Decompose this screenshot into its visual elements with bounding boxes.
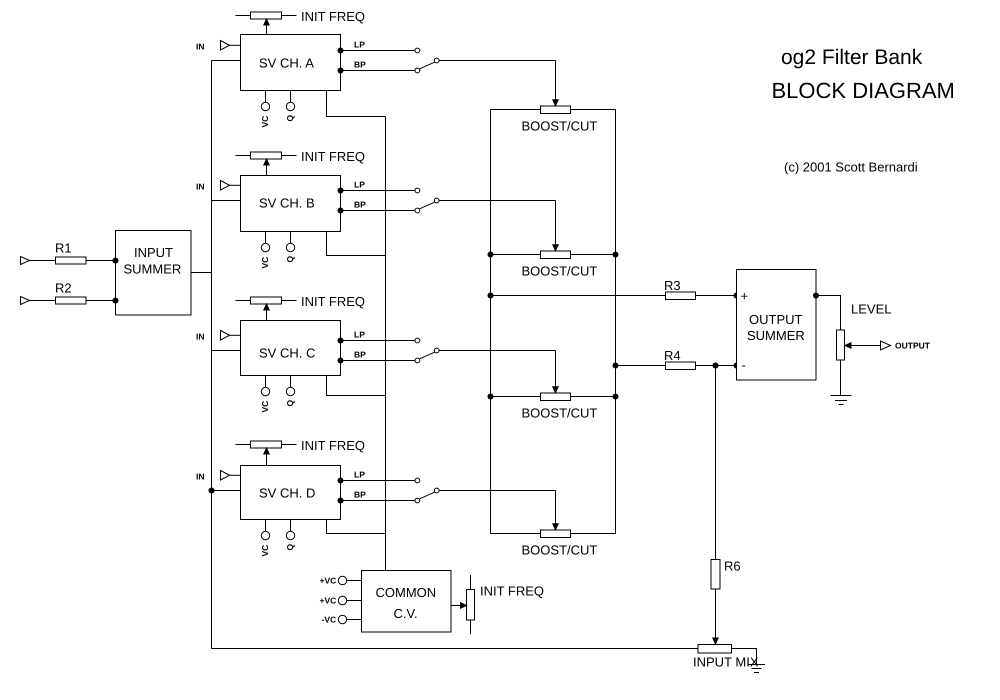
- svg-text:BP: BP: [354, 200, 366, 210]
- label - input: [742, 358, 746, 373]
- open terminal BP (channel D): [415, 498, 420, 503]
- svg-text:Q: Q: [285, 115, 295, 122]
- label VC (channel D): [260, 545, 270, 557]
- wire SV CH. C bottom to common CV bus: [327, 375, 386, 396]
- label LP (channel A): [354, 40, 365, 50]
- input buffer triangle (channel D): [221, 471, 241, 481]
- node BP pin (channel A): [338, 68, 344, 74]
- open terminal LP (channel C): [415, 338, 420, 343]
- node bus at channel D: [209, 488, 215, 494]
- label R3: [664, 278, 681, 293]
- open terminal BP (channel A): [415, 68, 420, 73]
- wire BP output (channel B): [341, 210, 416, 212]
- copyright (c) 2001 Scott Bernardi: [784, 160, 918, 175]
- wiper arrow from SV CH. B to INIT FREQ pot: [264, 159, 269, 175]
- label BP (channel D): [354, 490, 366, 500]
- label -VC (3): [322, 615, 337, 625]
- node BP pin (channel B): [338, 208, 344, 214]
- wire cut bus to R4: [616, 365, 737, 367]
- svg-text:(c) 2001 Scott Bernardi: (c) 2001 Scott Bernardi: [784, 160, 918, 175]
- svg-text:BLOCK DIAGRAM: BLOCK DIAGRAM: [772, 78, 955, 103]
- label BP (channel B): [354, 200, 366, 210]
- wire common INIT FREQ CV bus (vertical): [385, 117, 387, 571]
- svg-text:+VC: +VC: [320, 576, 337, 586]
- node output summer output: [813, 293, 819, 299]
- wiper arrow into BOOST/CUT 1: [553, 61, 558, 106]
- label IN (channel C): [196, 332, 205, 342]
- potentiometer BOOST/CUT 4: [491, 530, 616, 538]
- input buffer triangle (channel C): [221, 331, 241, 341]
- open terminal LP (channel B): [415, 188, 420, 193]
- label IN (channel A): [196, 42, 205, 52]
- title BLOCK DIAGRAM: [772, 78, 955, 103]
- resistor R3: [666, 292, 696, 300]
- label Q (channel B): [285, 256, 295, 263]
- node LP pin (channel C): [338, 338, 344, 344]
- node R4 / R6 junction: [713, 363, 719, 369]
- resistor R1: [56, 257, 87, 264]
- svg-text:LP: LP: [354, 40, 365, 50]
- potentiometer BOOST/CUT 1: [491, 106, 616, 114]
- wire input bus to SV CH. C: [212, 350, 241, 352]
- output buffer triangle: [881, 341, 891, 350]
- VC control input terminal (channel D): [261, 519, 269, 540]
- label BOOST/CUT 4: [522, 543, 598, 558]
- label BOOST/CUT 1: [522, 119, 598, 134]
- node right rail / pot3: [613, 394, 619, 400]
- potentiometer BOOST/CUT 3: [491, 393, 616, 401]
- svg-text:INIT FREQ: INIT FREQ: [301, 149, 365, 164]
- block OUTPUT SUMMER: [737, 270, 817, 381]
- svg-text:LEVEL: LEVEL: [851, 302, 891, 317]
- open terminal BP (channel B): [415, 208, 420, 213]
- wire input bus (vertical): [211, 61, 213, 649]
- label VC (channel C): [260, 401, 270, 413]
- label IN (channel D): [196, 472, 205, 482]
- svg-text:Q: Q: [285, 544, 295, 551]
- svg-text:BOOST/CUT: BOOST/CUT: [522, 119, 598, 134]
- VC control input terminal (channel A): [261, 90, 269, 111]
- potentiometer INPUT MIX: [698, 645, 732, 654]
- svg-text:VC: VC: [260, 545, 270, 557]
- svg-text:INIT FREQ: INIT FREQ: [301, 438, 365, 453]
- wiper arrow COMMON C.V. to INIT FREQ pot: [451, 603, 467, 608]
- potentiometer common INIT FREQ: [467, 575, 475, 634]
- wire boost bus to R3: [491, 295, 737, 297]
- Q control input terminal (channel B): [286, 231, 294, 252]
- label Q (channel A): [285, 115, 295, 122]
- wire LEVEL pot to ground: [840, 360, 842, 396]
- block INPUT SUMMER: [116, 231, 192, 316]
- input buffer triangle 2: [21, 297, 30, 305]
- wire LP output (channel B): [341, 190, 416, 192]
- potentiometer INIT FREQ (channel D): [236, 441, 297, 448]
- wiper arrow from SV CH. A to INIT FREQ pot: [264, 19, 269, 34]
- label +VC (2): [320, 596, 337, 606]
- label R6: [724, 559, 741, 574]
- label INIT FREQ (channel B): [301, 149, 365, 164]
- node LP pin (channel A): [338, 48, 344, 54]
- svg-text:VC: VC: [260, 401, 270, 413]
- node LP pin (channel B): [338, 188, 344, 194]
- label LP (channel D): [354, 470, 365, 480]
- wiper arrow from SV CH. C to INIT FREQ pot: [264, 304, 269, 320]
- switch SWC LP/BP select: [420, 348, 440, 359]
- wiper arrow LEVEL pot to output: [845, 343, 880, 348]
- node R1 to summer: [113, 258, 119, 264]
- node left rail / R3 wire: [488, 293, 494, 299]
- label R2: [55, 281, 72, 296]
- svg-text:INPUT: INPUT: [134, 245, 173, 260]
- switch SWB LP/BP select: [420, 198, 440, 209]
- label OUTPUT: [895, 341, 931, 351]
- control input terminal +VC (1): [338, 576, 361, 584]
- svg-text:SUMMER: SUMMER: [747, 328, 805, 343]
- label VC (channel B): [260, 257, 270, 269]
- wire left boost rail: [490, 110, 492, 534]
- open terminal BP (channel C): [415, 358, 420, 363]
- label +VC (1): [320, 576, 337, 586]
- node R4 to - input: [734, 363, 740, 369]
- VC control input terminal (channel C): [261, 375, 269, 396]
- resistor R2: [56, 297, 87, 304]
- label INPUT MIX: [693, 655, 759, 670]
- Q control input terminal (channel D): [286, 519, 294, 540]
- wire INPUT MIX to ground: [732, 649, 757, 665]
- label + input: [741, 289, 749, 304]
- wiper arrow into BOOST/CUT 3: [553, 351, 558, 393]
- label INIT FREQ (channel C): [301, 294, 365, 309]
- node LP pin (channel D): [338, 478, 344, 484]
- label R4: [664, 348, 681, 363]
- svg-text:COMMON: COMMON: [376, 585, 437, 600]
- wire LP output (channel C): [341, 340, 416, 342]
- svg-text:SV CH. D: SV CH. D: [259, 486, 315, 501]
- input buffer triangle (channel A): [221, 41, 241, 51]
- svg-text:LP: LP: [354, 470, 365, 480]
- wire input 1: [30, 260, 116, 262]
- resistor R4: [666, 362, 696, 370]
- label BOOST/CUT 3: [522, 406, 598, 421]
- label LP (channel C): [354, 330, 365, 340]
- svg-text:Q: Q: [285, 400, 295, 407]
- svg-text:SV CH. A: SV CH. A: [259, 56, 314, 71]
- label Q (channel D): [285, 544, 295, 551]
- label INIT FREQ (channel D): [301, 438, 365, 453]
- label BOOST/CUT 2: [522, 264, 598, 279]
- label VC (channel A): [260, 116, 270, 128]
- svg-text:OUTPUT: OUTPUT: [895, 341, 931, 351]
- svg-text:R4: R4: [664, 348, 681, 363]
- wire switch A to BOOST/CUT: [439, 60, 555, 62]
- svg-text:BP: BP: [354, 490, 366, 500]
- Q control input terminal (channel A): [286, 90, 294, 111]
- svg-text:BOOST/CUT: BOOST/CUT: [522, 406, 598, 421]
- svg-text:+VC: +VC: [320, 596, 337, 606]
- svg-text:-VC: -VC: [322, 615, 337, 625]
- node R3 to + input: [734, 293, 740, 299]
- wire LP output (channel A): [341, 50, 416, 52]
- VC control input terminal (channel B): [261, 231, 269, 252]
- node BP pin (channel D): [338, 498, 344, 504]
- label LP (channel B): [354, 180, 365, 190]
- block SV CH. B: [241, 176, 341, 232]
- block COMMON C.V.: [362, 571, 452, 633]
- label INIT FREQ (common): [480, 584, 544, 599]
- label BP (channel A): [354, 60, 366, 70]
- wire output summer to LEVEL pot: [816, 296, 841, 331]
- wire input bus to SV CH. D: [212, 490, 241, 492]
- node right rail / pot2: [613, 252, 619, 258]
- svg-text:R6: R6: [724, 559, 741, 574]
- label R1: [55, 241, 72, 256]
- svg-text:LP: LP: [354, 180, 365, 190]
- wiper arrow from SV CH. D to INIT FREQ pot: [264, 448, 269, 465]
- control input terminal -VC (3): [338, 615, 361, 623]
- potentiometer INIT FREQ (channel B): [236, 152, 297, 159]
- svg-text:IN: IN: [196, 42, 205, 52]
- wiper arrow into BOOST/CUT 2: [553, 201, 558, 251]
- input buffer triangle 1: [21, 257, 30, 265]
- node right rail / R4 wire: [613, 363, 619, 369]
- wire right boost rail: [615, 110, 617, 534]
- wire SV CH. A bottom to common CV bus: [327, 90, 386, 117]
- svg-text:IN: IN: [196, 332, 205, 342]
- svg-text:og2 Filter Bank: og2 Filter Bank: [781, 46, 923, 69]
- svg-text:INPUT MIX: INPUT MIX: [693, 655, 759, 670]
- label Q (channel C): [285, 400, 295, 407]
- svg-text:INIT FREQ: INIT FREQ: [301, 9, 365, 24]
- wire R4 junction to R6: [715, 366, 717, 560]
- label LEVEL: [851, 302, 891, 317]
- svg-text:OUTPUT: OUTPUT: [749, 312, 803, 327]
- wire input 2: [30, 300, 116, 302]
- svg-text:BP: BP: [354, 350, 366, 360]
- svg-text:BOOST/CUT: BOOST/CUT: [522, 543, 598, 558]
- switch SWD LP/BP select: [420, 488, 440, 499]
- wire INPUT SUMMER output to bus: [191, 272, 212, 274]
- wire SV CH. B bottom to common CV bus: [327, 231, 386, 256]
- wire bottom feedback line: [212, 648, 699, 650]
- wire switch B to BOOST/CUT: [439, 200, 555, 202]
- Q control input terminal (channel C): [286, 375, 294, 396]
- label INIT FREQ (channel A): [301, 9, 365, 24]
- svg-text:VC: VC: [260, 257, 270, 269]
- block SV CH. A: [241, 35, 341, 91]
- svg-text:IN: IN: [196, 182, 205, 192]
- label BP (channel C): [354, 350, 366, 360]
- wire BP output (channel A): [341, 70, 416, 72]
- input buffer triangle (channel B): [221, 181, 241, 191]
- node left rail / pot2: [488, 252, 494, 258]
- wire switch C to BOOST/CUT: [439, 350, 555, 352]
- potentiometer INIT FREQ (channel C): [236, 297, 297, 304]
- svg-text:INIT FREQ: INIT FREQ: [301, 294, 365, 309]
- svg-text:R2: R2: [55, 281, 72, 296]
- svg-text:BP: BP: [354, 60, 366, 70]
- wire input bus to SV CH. A: [212, 60, 241, 62]
- wiper arrow into BOOST/CUT 4: [553, 491, 558, 530]
- potentiometer LEVEL: [837, 330, 845, 360]
- wire BP output (channel C): [341, 360, 416, 362]
- wire switch D to BOOST/CUT: [439, 490, 555, 492]
- svg-text:INIT FREQ: INIT FREQ: [480, 584, 544, 599]
- svg-text:SV CH. C: SV CH. C: [259, 346, 315, 361]
- wire input bus to SV CH. B: [212, 200, 241, 202]
- svg-text:VC: VC: [260, 116, 270, 128]
- open terminal LP (channel A): [415, 48, 420, 53]
- block SV CH. C: [241, 321, 341, 376]
- node BP pin (channel C): [338, 358, 344, 364]
- svg-text:IN: IN: [196, 472, 205, 482]
- title og2 Filter Bank: [781, 46, 923, 69]
- svg-text:C.V.: C.V.: [394, 606, 418, 621]
- node left rail / pot3: [488, 394, 494, 400]
- svg-text:LP: LP: [354, 330, 365, 340]
- switch SWA LP/BP select: [420, 58, 440, 69]
- wire R6 to INPUT MIX wiper: [713, 589, 718, 644]
- wire SV CH. D bottom to common CV bus: [327, 519, 386, 534]
- label IN (channel B): [196, 182, 205, 192]
- svg-text:SUMMER: SUMMER: [124, 262, 182, 277]
- svg-text:+: +: [741, 289, 749, 304]
- wire BP output (channel D): [341, 500, 416, 502]
- open terminal LP (channel D): [415, 478, 420, 483]
- ground (LEVEL pot): [831, 396, 852, 405]
- potentiometer BOOST/CUT 2: [491, 251, 616, 259]
- resistor R6: [711, 560, 720, 590]
- node R2 to summer: [113, 298, 119, 304]
- svg-text:-: -: [742, 358, 746, 373]
- potentiometer INIT FREQ (channel A): [236, 12, 297, 19]
- ground (INPUT MIX): [748, 665, 765, 673]
- svg-text:BOOST/CUT: BOOST/CUT: [522, 264, 598, 279]
- wire LP output (channel D): [341, 480, 416, 482]
- block SV CH. D: [241, 466, 341, 520]
- control input terminal +VC (2): [338, 596, 361, 604]
- svg-text:Q: Q: [285, 256, 295, 263]
- svg-text:R1: R1: [55, 241, 72, 256]
- svg-text:R3: R3: [664, 278, 681, 293]
- svg-text:SV CH. B: SV CH. B: [259, 196, 315, 211]
